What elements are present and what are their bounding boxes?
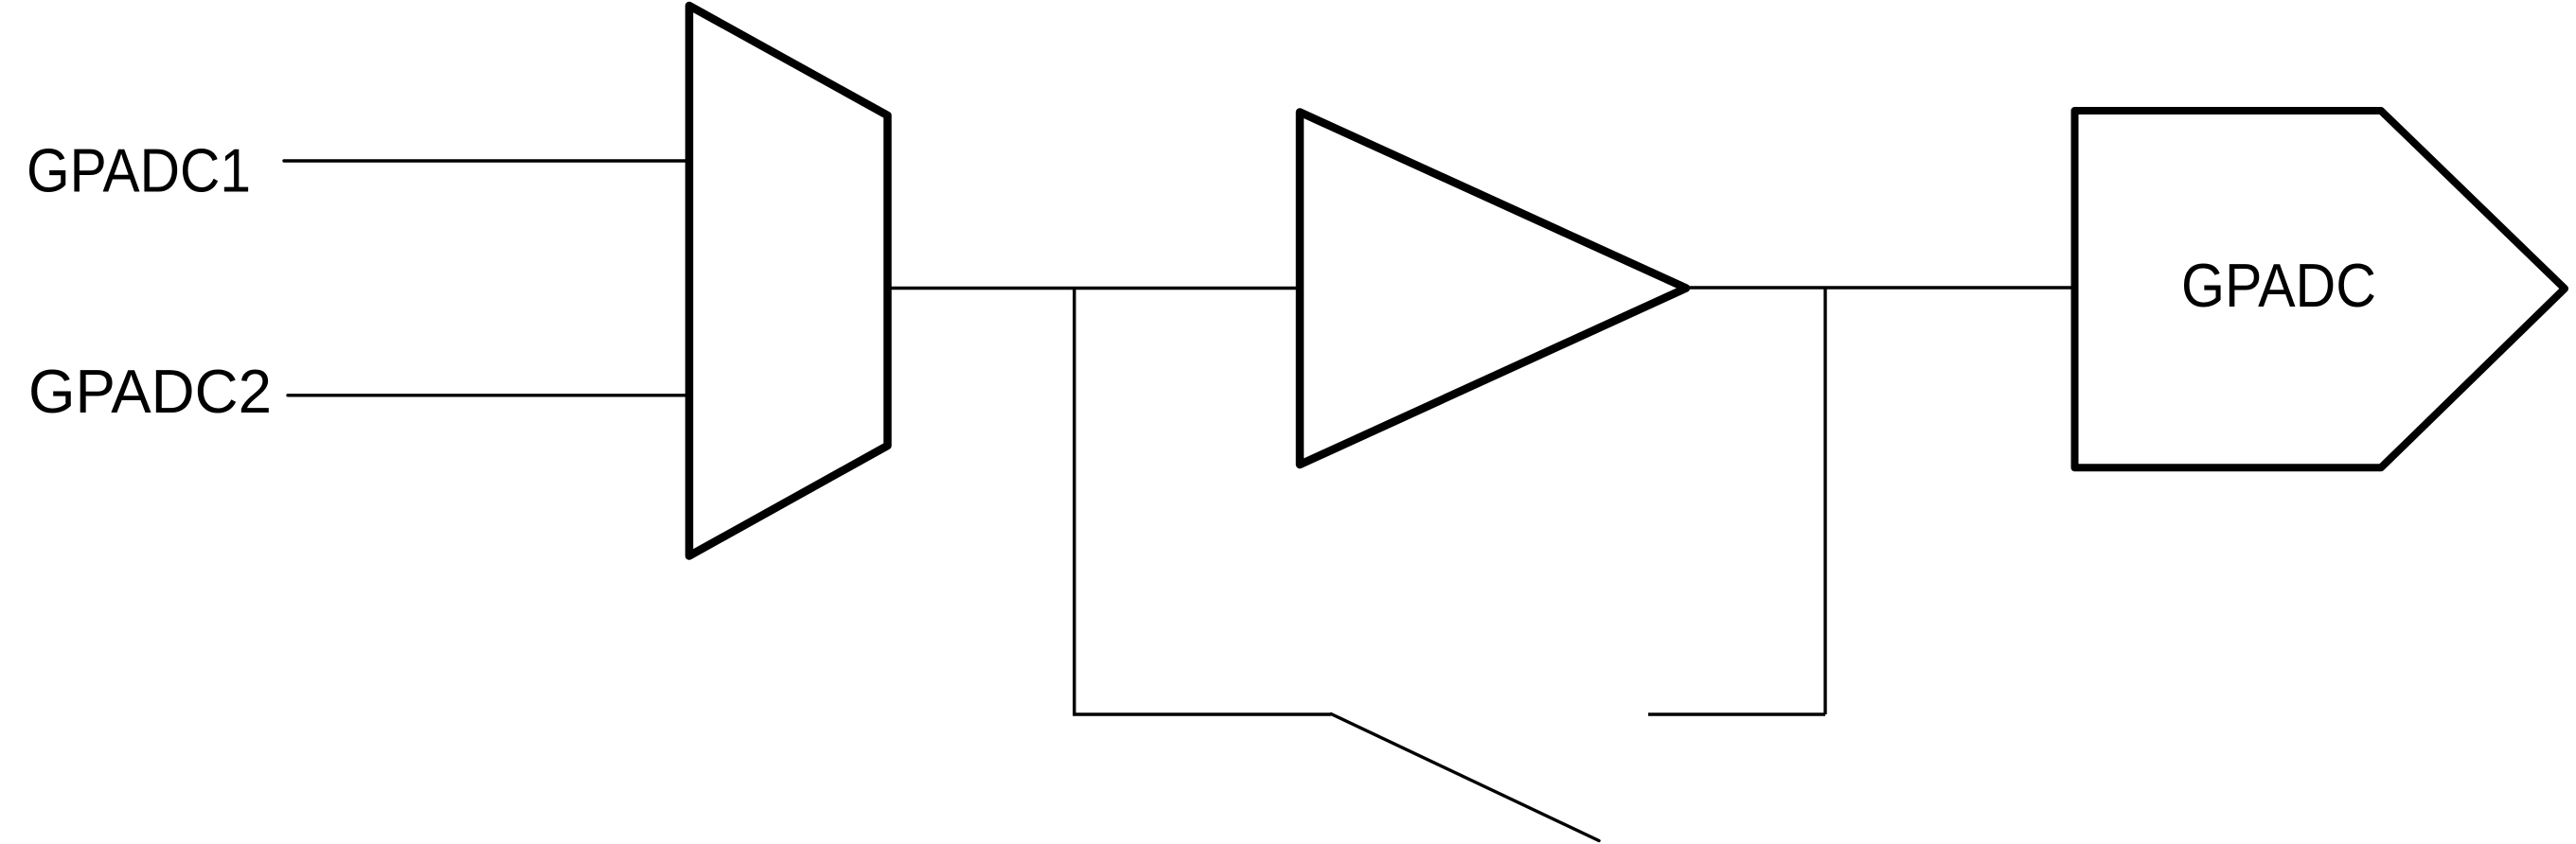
multiplexer U1 (input mux trapezoid) bbox=[689, 6, 888, 556]
wire bypass bottom right segment bbox=[1648, 712, 1825, 715]
svg-text:GPADC1: GPADC1 bbox=[27, 137, 251, 205]
wire bypass bottom left segment bbox=[1075, 712, 1331, 714]
switch S1 blade (bypass switch, open) bbox=[1331, 714, 1599, 841]
node A junction: wire down from mux output net bbox=[1073, 289, 1075, 715]
svg-text:GPADC2: GPADC2 bbox=[28, 358, 272, 426]
node B junction: wire down from amplifier output net bbox=[1823, 288, 1826, 714]
block GPADC (output pentagon tag) bbox=[2075, 111, 2566, 467]
amplifier U2 (buffer triangle) bbox=[1300, 113, 1686, 466]
svg-text:GPADC: GPADC bbox=[2181, 252, 2376, 320]
wire GPADC2 input to mux bbox=[288, 394, 694, 396]
wire amplifier output to GPADC block bbox=[1686, 286, 2074, 289]
wire mux output to amplifier input bbox=[888, 287, 1298, 290]
wire GPADC1 input to mux bbox=[284, 159, 694, 162]
